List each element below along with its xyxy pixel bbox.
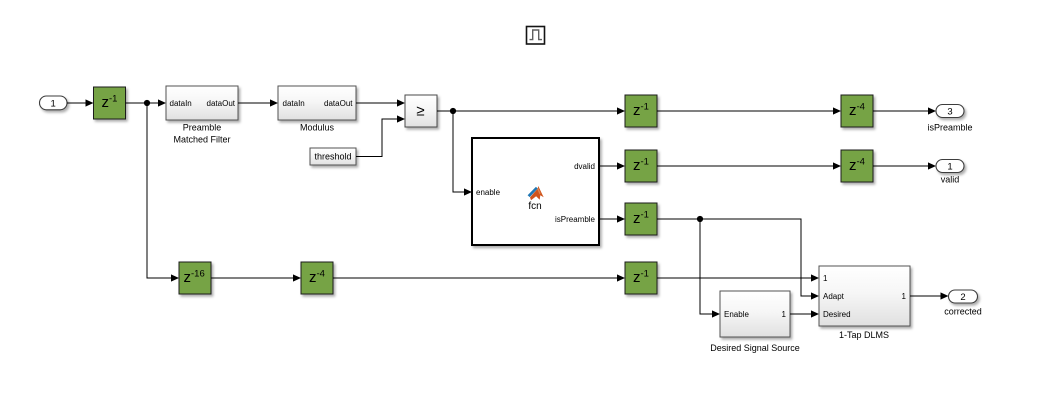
wire Modulus to relational operator — [356, 99, 405, 106]
wire Z-4 row1 to outport 3 — [873, 107, 936, 114]
delay Z^-4 row2 — [841, 150, 873, 182]
svg-text:Matched Filter: Matched Filter — [173, 135, 230, 145]
subsystem 1-Tap DLMS — [819, 266, 910, 340]
wire inport to Z-1 — [67, 99, 94, 106]
svg-text:threshold: threshold — [314, 152, 351, 162]
outport 1 valid — [936, 160, 964, 185]
wire branch down to z^-16 — [147, 103, 179, 282]
wire Z-16 to Z-4 — [211, 274, 301, 281]
delay Z^-4 row1 — [841, 95, 873, 127]
wire relational operator to Z-1 row1 — [437, 107, 625, 114]
MATLAB Function fcn — [472, 138, 599, 245]
svg-text:Modulus: Modulus — [300, 123, 335, 133]
delay Z^-16 — [179, 262, 211, 294]
outport 3 isPreamble — [927, 105, 972, 133]
wire branch to Desired Signal Source enable — [700, 219, 720, 318]
svg-text:1: 1 — [782, 310, 787, 319]
svg-text:1-Tap DLMS: 1-Tap DLMS — [839, 330, 889, 340]
pulse source icon — [527, 27, 545, 45]
svg-text:1: 1 — [823, 274, 828, 283]
MATLAB logo — [530, 186, 544, 200]
svg-text:Preamble: Preamble — [183, 123, 222, 133]
subsystem Preamble Matched Filter — [166, 86, 238, 145]
svg-text:dvalid: dvalid — [574, 162, 595, 171]
wire Z-4 row2 to outport 1 — [873, 162, 936, 169]
relational operator >= — [405, 95, 437, 127]
unit delay Z^-1 row2 — [625, 150, 657, 182]
svg-text:≥: ≥ — [416, 102, 424, 119]
svg-text:isPreamble: isPreamble — [927, 123, 972, 133]
svg-text:fcn: fcn — [528, 201, 541, 212]
wire Z-1 row4 to DLMS input 1 — [657, 274, 819, 281]
outport 2 corrected — [944, 290, 982, 317]
delay Z^-4 bottom — [301, 262, 333, 294]
svg-text:dataIn: dataIn — [170, 99, 192, 108]
junction node after relational operator — [450, 108, 456, 114]
wire fcn isPreamble to Z-1 row3 — [599, 215, 625, 222]
wire fcn dvalid to Z-1 row2 — [599, 162, 625, 169]
svg-text:isPreamble: isPreamble — [555, 215, 596, 224]
inport 1 — [40, 96, 68, 110]
wire Desired Signal Source to DLMS Desired — [790, 310, 819, 317]
svg-text:1: 1 — [902, 292, 907, 301]
wire threshold to relational operator — [356, 115, 405, 156]
wire Z-1 row3 to DLMS Adapt — [657, 219, 819, 300]
svg-text:1: 1 — [947, 161, 952, 172]
wire Preamble to Modulus — [238, 99, 278, 106]
wire Z-4 bottom to Z-1 row4 — [333, 274, 625, 281]
svg-text:1: 1 — [51, 98, 56, 109]
junction node row3 — [697, 216, 703, 222]
svg-text:3: 3 — [947, 106, 952, 117]
subsystem Modulus — [278, 86, 356, 133]
svg-text:dataIn: dataIn — [283, 99, 305, 108]
svg-text:enable: enable — [476, 188, 501, 197]
svg-text:corrected: corrected — [944, 307, 982, 317]
wire Z-1 row1 to Z-4 row1 — [657, 107, 841, 114]
svg-text:valid: valid — [941, 175, 960, 185]
wire down to fcn enable — [453, 111, 472, 196]
unit delay Z^-1 input — [94, 87, 126, 119]
junction node — [144, 100, 150, 106]
unit delay Z^-1 row3 — [625, 203, 657, 235]
svg-text:Desired: Desired — [823, 310, 851, 319]
svg-text:dataOut: dataOut — [324, 99, 353, 108]
unit delay Z^-1 row1 — [625, 95, 657, 127]
svg-text:dataOut: dataOut — [207, 99, 236, 108]
svg-text:Adapt: Adapt — [823, 292, 845, 301]
wire DLMS to outport 2 — [910, 292, 949, 299]
wire Z-1 to Preamble Matched Filter — [126, 99, 167, 106]
wire Z-1 row2 to Z-4 row2 — [657, 162, 841, 169]
unit delay Z^-1 row4 — [625, 262, 657, 294]
constant threshold — [310, 148, 356, 165]
subsystem Desired Signal Source — [710, 291, 800, 353]
svg-text:Enable: Enable — [724, 310, 749, 319]
svg-text:2: 2 — [960, 292, 965, 303]
svg-text:Desired Signal Source: Desired Signal Source — [710, 343, 800, 353]
